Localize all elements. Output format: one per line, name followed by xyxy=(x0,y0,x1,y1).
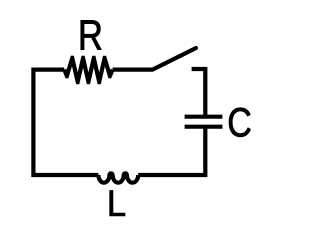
wire: switch contact stub and right side down to capacitor top plate xyxy=(192,69,206,117)
label C xyxy=(229,108,251,137)
capacitor C bottom plate xyxy=(185,125,223,129)
wire: resistor to switch pivot xyxy=(113,67,153,71)
wire: right side down from capacitor and bottom run to inductor xyxy=(138,127,205,175)
label R xyxy=(81,20,102,49)
wire: bottom-left run, left side up, and top run to resistor xyxy=(33,70,98,175)
label L xyxy=(110,190,125,215)
inductor L (3-loop coil) xyxy=(98,173,138,182)
resistor R (zigzag) xyxy=(62,56,114,85)
capacitor C top plate xyxy=(185,115,223,119)
switch blade (open, raised) xyxy=(153,48,197,70)
